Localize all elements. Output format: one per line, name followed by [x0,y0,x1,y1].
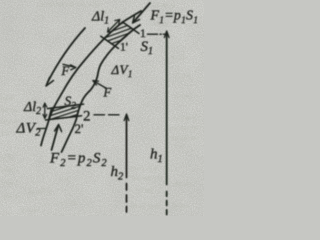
svg-text:хо вк сті: хо вк сті [171,123,198,132]
height line h1 [166,33,168,185]
svg-text:кочг: кочг [1,165,15,174]
svg-text:эво мз: эво мз [172,179,192,188]
svg-text:2': 2' [75,121,84,136]
paper background [0,0,204,216]
svg-text:шчв: шчв [1,93,15,102]
svg-text:т ж: т ж [174,141,185,150]
bleed-through faint text [0,0,199,214]
svg-text:F1=p1S1: F1=p1S1 [150,9,199,26]
dash-dot level line 1 [148,33,165,35]
svg-text:ж б: ж б [0,153,12,162]
svg-text:вч об эс: вч об эс [28,187,54,196]
height line h2 [126,116,128,178]
svg-text:оіж с: оіж с [2,178,19,187]
side pressure arrow right [95,82,106,88]
force arrow F2 [52,127,58,150]
svg-text:2: 2 [83,109,91,125]
section line 1' [101,36,119,48]
svg-text:ы кч ны во тпі а пр: ы кч ны во тпі а пр [40,0,100,8]
svg-text:ві дзе: ві дзе [174,71,192,80]
stream tube right boundary [62,25,141,152]
svg-text:1: 1 [140,28,146,40]
main drawing [38,3,170,215]
stream tube left boundary [41,11,141,146]
section line 1 [123,22,140,34]
svg-text:в дз: в дз [172,53,184,62]
svg-text:F2=p2S2: F2=p2S2 [49,151,108,169]
svg-text:жо ност м: жо ност м [130,173,163,182]
force arrow F1 [134,3,151,22]
side pressure arrow left [63,64,74,67]
flow direction curve arrow [48,28,86,83]
svg-text:F: F [103,86,112,100]
svg-text:1': 1' [120,42,128,54]
hatching of volume dV1 [92,10,152,53]
svg-text:т п: т п [60,174,69,183]
svg-text:вю п: вю п [3,191,18,200]
leader line of dV2 label [38,127,47,129]
svg-text:хоть это: хоть это [131,163,157,172]
svg-text:ве аэ ном: ве аэ ном [131,201,161,210]
svg-text:по ть: по ть [1,105,18,114]
svg-text:ж про: ж про [19,205,39,214]
svg-text:ж воз: ж воз [171,201,189,210]
svg-text:Хоі; вто: Хоі; вто [171,113,196,122]
hatching of volume dV2 [40,84,100,127]
section line 2' [46,116,82,120]
svg-text:F: F [61,64,70,78]
dash-dot level line 2 [94,114,119,116]
svg-text:вес й: вес й [1,117,17,126]
delta-l2 double arrow [44,105,46,117]
svg-text:вэ мз: вэ мз [174,91,190,100]
svg-text:лж і: лж і [1,128,14,137]
svg-text:у год: у год [136,185,152,194]
section line 2 [48,104,84,109]
delta-l1 double arrow [109,21,119,31]
svg-text:а вэ он: а вэ он [55,198,77,207]
